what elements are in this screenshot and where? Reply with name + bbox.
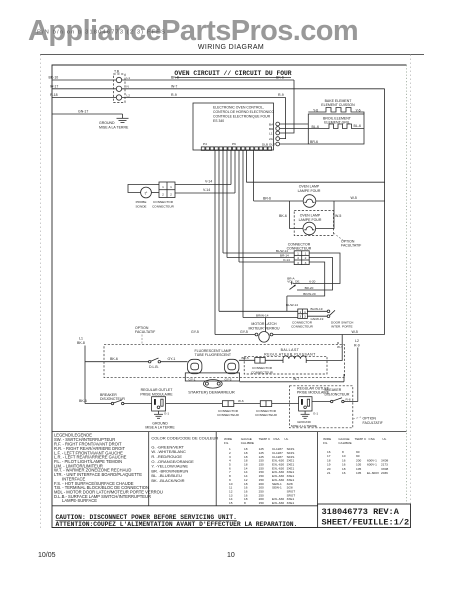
control pin L1 (269, 131, 280, 135)
wire to right outlet (272, 403, 299, 405)
svg-text:BL/W-14: BL/W-14 (286, 303, 298, 307)
broil element text (323, 116, 352, 124)
wire BR-5 (239, 356, 255, 360)
svg-text:318046773 REV:A: 318046773 REV:A (322, 507, 400, 517)
svg-text:3: 3 (297, 261, 299, 265)
title OVEN CIRCUIT (174, 70, 291, 78)
control pin 2A (269, 137, 280, 141)
svg-text:G-1: G-1 (313, 412, 318, 416)
wire GY-5 motor feed (191, 330, 256, 335)
svg-text:16: 16 (342, 471, 346, 475)
wire 6-20 bend (293, 253, 341, 284)
svg-text:FACULTATIF: FACULTATIF (135, 330, 155, 334)
svg-text:GY-1: GY-1 (189, 377, 196, 381)
svg-text:P6: P6 (232, 142, 236, 146)
wire (vertical from control at x=243.0) (242, 151, 244, 318)
svg-text:3: 3 (304, 315, 306, 319)
svg-text:10/05: 10/05 (38, 552, 56, 559)
svg-text:W-5: W-5 (335, 214, 341, 218)
wire W-7 ballast drop (327, 335, 343, 361)
lamp L2 oven lamp optional (299, 214, 322, 235)
svg-text:BK-10: BK-10 (49, 76, 59, 80)
page right dotted border (410, 55, 412, 529)
wire (vertical from control at x=223.0) (222, 151, 224, 254)
svg-text:BK. -BLACK/NOIR: BK. -BLACK/NOIR (151, 478, 184, 483)
wire BR-6 return from OUT pin (280, 140, 319, 144)
wire GN/W-19 (307, 316, 327, 321)
probe sensor t (135, 187, 151, 208)
svg-text:3: 3 (305, 261, 307, 265)
caution text (56, 514, 298, 528)
svg-text:L1: L1 (127, 76, 131, 80)
svg-text:ES 340: ES 340 (213, 119, 224, 123)
svg-text:COLOR CODE/CODE DE COULEUR: COLOR CODE/CODE DE COULEUR (151, 435, 218, 440)
svg-text:CALIBRE: CALIBRE (338, 441, 351, 445)
switch D.L.B. (149, 358, 161, 369)
svg-text:BR-14: BR-14 (280, 253, 289, 257)
wire (vertical from control at x=246.4) (245, 151, 247, 183)
broil element enclosure box (308, 114, 364, 144)
svg-text:CSA: CSA (273, 437, 280, 441)
svg-text:2: 2 (305, 256, 307, 260)
svg-text:BK-6: BK-6 (276, 76, 284, 80)
connector left outlet 2-pin (217, 401, 240, 417)
svg-text:CONTROLE ELECTRONIQUE FOUR: CONTROLE ELECTRONIQUE FOUR (213, 115, 271, 119)
wire BK-10 (49, 76, 117, 80)
wire BL/W-14 row1 (223, 249, 294, 253)
svg-text:R-9: R-9 (278, 93, 284, 97)
svg-text:6-20: 6-20 (309, 280, 315, 284)
svg-text:ELEMENT GRIL: ELEMENT GRIL (324, 121, 350, 125)
wire (vertical from control at x=235.0) (234, 151, 236, 194)
terminal block T.B. (114, 70, 131, 103)
svg-text:BK-8: BK-8 (171, 76, 179, 80)
outlet left regular outlet (140, 388, 173, 411)
svg-text:2: 2 (162, 193, 164, 197)
ballast box (244, 348, 327, 374)
svg-text:BR/W-14: BR/W-14 (256, 313, 269, 317)
wire (vertical from control at x=231.0) (230, 151, 232, 185)
svg-text:GY-5: GY-5 (225, 377, 232, 381)
control pin BA (269, 122, 280, 126)
svg-text:SONDE: SONDE (135, 204, 146, 208)
svg-text:UL: UL (382, 437, 386, 441)
lamp L1 oven lamp (298, 185, 321, 208)
svg-text:1: 1 (297, 252, 299, 256)
svg-text:LAMPE-SURFACE: LAMPE-SURFACE (54, 498, 97, 503)
fluorescent lamp tube (185, 349, 239, 381)
wire (vertical from control at x=215.0) (214, 151, 216, 335)
svg-text:105: 105 (356, 471, 361, 475)
svg-text:BL-6: BL-6 (354, 124, 361, 128)
svg-text:CONNECTEUR: CONNECTEUR (255, 413, 278, 417)
wire table left rows (224, 437, 295, 505)
svg-text:VOL. DE.: VOL. DE. (287, 280, 300, 284)
switch door switch (327, 310, 353, 328)
node L1 BK-8 (77, 337, 85, 404)
svg-text:L1: L1 (79, 337, 83, 341)
svg-text:DLB OUT: DLB OUT (262, 142, 276, 146)
svg-text:R-18: R-18 (50, 93, 58, 97)
svg-text:BK-8: BK-8 (77, 341, 85, 345)
svg-text:1: 1 (299, 310, 301, 314)
motor latch MDL (248, 322, 280, 342)
svg-text:1: 1 (170, 185, 172, 189)
svg-text:D.L.B.: D.L.B. (149, 365, 159, 369)
svg-text:FIL: FIL (224, 441, 229, 445)
wire W-5 lamp2 riser (316, 201, 342, 229)
potentiometer BR-A volume control (287, 276, 301, 311)
wire W-5 lamp1 to bus (316, 196, 385, 201)
svg-text:GN-17: GN-17 (78, 109, 88, 113)
svg-text:TUBE FLUORESCENT: TUBE FLUORESCENT (195, 353, 232, 357)
wire BK-6 lamp switch feed (85, 357, 149, 362)
resistor bake element (308, 108, 364, 115)
svg-text:3: 3 (299, 315, 301, 319)
svg-text:L2: L2 (127, 93, 131, 97)
option box oven lamp 2 (294, 211, 333, 236)
svg-text:CSA: CSA (369, 437, 376, 441)
svg-text:t°: t° (145, 191, 148, 196)
node L2 R-9 (354, 339, 360, 402)
wire GY-1 to fluorescent lamp (160, 357, 187, 362)
svg-text:W-7: W-7 (293, 377, 299, 381)
svg-text:LAMPE FOUR: LAMPE FOUR (299, 218, 322, 222)
svg-text:G-1: G-1 (164, 412, 169, 416)
svg-text:UL: UL (284, 437, 288, 441)
svg-text:Y-6: Y-6 (356, 108, 361, 112)
wire BL/W-14 to door connector (219, 303, 298, 311)
connector J1 3-row (287, 242, 312, 264)
wire (vertical from control at x=219.0) (218, 151, 220, 312)
svg-text:600V-1: 600V-1 (367, 463, 377, 467)
connector ballast 2-pin (251, 358, 274, 375)
svg-text:ATTENTION:COUPEZ L'ALIMENTATIO: ATTENTION:COUPEZ L'ALIMENTATION AVANT D'… (56, 521, 298, 528)
wire (vertical from control at x=239.0) (238, 151, 240, 263)
svg-text:2: 2 (170, 193, 172, 197)
option label outlet right (353, 417, 383, 425)
svg-text:CONNECTEUR: CONNECTEUR (217, 413, 240, 417)
svg-text:OVEN CIRCUIT // CIRCUIT DU FOU: OVEN CIRCUIT // CIRCUIT DU FOUR (174, 70, 291, 77)
wire W-7 (122, 84, 385, 88)
schematic border frame (52, 65, 407, 528)
control pin BR (269, 127, 280, 131)
svg-text:1: 1 (304, 310, 306, 314)
option dashed box outlet right (290, 386, 353, 428)
resistor broil element (312, 124, 365, 129)
outlet right regular outlet (297, 386, 330, 411)
wire probe to connector (151, 192, 159, 194)
svg-text:CONNECTEUR: CONNECTEUR (291, 324, 314, 328)
svg-text:BL/W-19: BL/W-19 (311, 307, 323, 311)
breaker left (79, 393, 152, 405)
option label for lamp 2 (334, 233, 362, 248)
connector J2 2x2 door (291, 309, 314, 328)
wire BR/W-14 to motor latch (243, 313, 298, 332)
svg-text:ELECTRONIC OVEN CONTROL,: ELECTRONIC OVEN CONTROL, (213, 106, 264, 110)
svg-text:BR-5: BR-5 (242, 356, 249, 360)
wire BR-14 row2 (227, 253, 294, 257)
breaker right (312, 388, 358, 402)
legend box (52, 432, 407, 506)
svg-text:15: 15 (229, 501, 233, 505)
bake element text (321, 99, 355, 107)
wire BK-6 drop to control L1 pin (276, 76, 294, 133)
svg-text:BK-6: BK-6 (79, 399, 87, 403)
svg-text:3XE1: 3XE1 (287, 501, 295, 505)
svg-text:MOTEUR VERROU: MOTEUR VERROU (248, 326, 280, 330)
svg-text:GY-5: GY-5 (191, 330, 199, 334)
svg-text:10: 10 (227, 552, 235, 559)
wire probe loop (128, 185, 159, 193)
legend text (54, 432, 163, 503)
ground outlet right (291, 411, 318, 428)
svg-text:FIL: FIL (323, 441, 328, 445)
svg-text:INTER. PORTE: INTER. PORTE (331, 324, 353, 328)
wire (vertical from control at x=227.0) (226, 151, 228, 258)
svg-text:LAMPE FOUR: LAMPE FOUR (298, 189, 321, 193)
wire W-7 lower run (240, 374, 344, 382)
svg-text:REGULATEUR PUISSANT: REGULATEUR PUISSANT (264, 352, 316, 356)
connector right outlet 2-pin (255, 401, 278, 417)
svg-text:CONNECTEUR: CONNECTEUR (287, 247, 312, 251)
svg-text:O-14: O-14 (283, 258, 290, 262)
svg-text:4: 4 (297, 256, 299, 260)
wire W-6 (234, 399, 260, 403)
wire gauge table right (323, 437, 388, 475)
wire BA to bake element (280, 123, 309, 125)
svg-text:TEMP C: TEMP C (259, 437, 271, 441)
wire V-14 bottom (175, 188, 235, 193)
svg-text:R-9: R-9 (354, 343, 360, 347)
svg-text:MISE A LA TERRE: MISE A LA TERRE (291, 424, 317, 428)
svg-text:1: 1 (162, 185, 164, 189)
svg-text:W-7: W-7 (337, 345, 343, 349)
svg-text:WIRING DIAGRAM: WIRING DIAGRAM (198, 44, 264, 51)
svg-text:BK/W-20: BK/W-20 (303, 292, 316, 296)
svg-text:BK-6: BK-6 (110, 357, 118, 361)
svg-text:MISE A LA TERRE: MISE A LA TERRE (145, 426, 175, 430)
svg-text:2036: 2036 (381, 471, 388, 475)
svg-text:BR-20: BR-20 (305, 286, 314, 290)
svg-text:DISJONCTEUR: DISJONCTEUR (325, 393, 350, 397)
svg-text:BR: BR (269, 127, 274, 131)
wire ballast coil feed (265, 359, 283, 361)
wire O-14 row3 (239, 258, 294, 262)
wire (vertical from control at x=253.6) (253, 151, 255, 202)
svg-text:FACULTATIF: FACULTATIF (341, 244, 361, 248)
ground symbol (99, 118, 129, 129)
wire GN-17 to ground (52, 109, 123, 118)
svg-text:150: 150 (259, 501, 264, 505)
svg-text:BL/W-14: BL/W-14 (276, 249, 288, 253)
svg-text:GN/W-19: GN/W-19 (311, 317, 324, 321)
option label fluorescent assembly (135, 326, 155, 345)
svg-text:BR-6: BR-6 (310, 140, 318, 144)
svg-text:L1: L1 (269, 131, 273, 135)
sheet number box (318, 504, 411, 528)
svg-text:8: 8 (244, 501, 246, 505)
wire BK-6 drop to lamp 2 (279, 201, 303, 229)
svg-text:CONNECTEUR: CONNECTEUR (251, 370, 274, 374)
svg-text:V-14: V-14 (203, 188, 210, 192)
wire BL/W-19 (307, 307, 327, 311)
svg-text:W-7: W-7 (171, 84, 177, 88)
svg-text:P/N b/n on b 318046773 (2 3): P/N b/n on b 318046773 (2 3) FFES (37, 30, 166, 36)
svg-text:ELEMENT CUISSON: ELEMENT CUISSON (321, 103, 355, 107)
wire R-9 (122, 93, 286, 139)
control header connector pins P4/P6 (201, 142, 271, 150)
wire W-5 right bus (384, 89, 386, 335)
svg-text:R-8: R-8 (346, 397, 351, 401)
wire BR-6 to oven lamp 1 (254, 197, 304, 202)
svg-text:BR-6: BR-6 (263, 197, 271, 201)
svg-text:TEMP C: TEMP C (355, 437, 367, 441)
svg-text:CONNECTEUR: CONNECTEUR (152, 204, 175, 208)
page top rule (40, 54, 424, 56)
probe connector (152, 182, 175, 208)
op-amp U1 electronic oven control box (193, 103, 274, 150)
control pin DLB OUT (262, 142, 280, 146)
wire V-14 top (175, 179, 231, 184)
wire upper lamp feed to bus (246, 181, 384, 183)
color code text (151, 435, 218, 483)
wire R-18 (50, 93, 116, 97)
svg-text:STARTER) DEMARREUR: STARTER) DEMARREUR (188, 390, 235, 395)
svg-text:PRISE MODULAIRE: PRISE MODULAIRE (140, 392, 173, 396)
svg-text:P4: P4 (203, 142, 207, 146)
wire W-17 (50, 84, 116, 88)
svg-text:BK-6: BK-6 (279, 214, 287, 218)
wire BK/W-20 bend (287, 262, 325, 296)
svg-text:W-5: W-5 (352, 330, 358, 334)
starter (188, 380, 235, 395)
svg-text:SEW-1: SEW-1 (272, 486, 282, 490)
svg-text:R-9: R-9 (171, 93, 177, 97)
ground outlet left (145, 411, 175, 430)
page left dotted border (40, 55, 42, 529)
svg-text:BL-6: BL-6 (312, 125, 319, 129)
wire BR-20 bend (297, 258, 333, 291)
svg-text:GY-5: GY-5 (240, 330, 248, 334)
svg-text:CALIBRE: CALIBRE (241, 441, 254, 445)
wire outlet to connector (166, 403, 223, 405)
wire BK-8 (122, 76, 294, 80)
svg-text:T.B.: T.B. (114, 70, 120, 74)
wire W-5 motor to bus (273, 330, 385, 335)
svg-text:EL-600V: EL-600V (367, 471, 380, 475)
svg-text:W-5: W-5 (351, 196, 357, 200)
wire BR to broil element (280, 128, 328, 130)
svg-text:SHEET/FEUILLE:1/2: SHEET/FEUILLE:1/2 (322, 518, 410, 528)
svg-text:V-14: V-14 (205, 179, 212, 183)
svg-text:EXL-630: EXL-630 (272, 501, 284, 505)
svg-text:MISE A LA TERRE: MISE A LA TERRE (99, 125, 129, 129)
svg-text:GY-1: GY-1 (168, 357, 176, 361)
option dashed box fluorescent assembly (104, 345, 345, 378)
svg-text:21: 21 (327, 471, 331, 475)
svg-text:N: N (127, 85, 129, 89)
inductor ballast coil (283, 356, 327, 363)
svg-text:W-17: W-17 (50, 84, 58, 88)
svg-text:1: 1 (305, 252, 307, 256)
svg-text:CONTROL DE HORNO ELECTRONICO: CONTROL DE HORNO ELECTRONICO (213, 110, 274, 114)
svg-text:W-6: W-6 (238, 399, 244, 403)
svg-text:FACULTATIF: FACULTATIF (363, 421, 383, 425)
